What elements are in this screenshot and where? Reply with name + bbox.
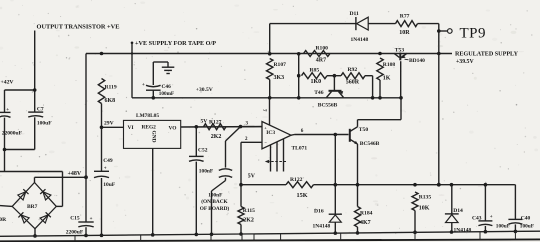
wire back cap lower lead xyxy=(225,178,227,181)
svg-text:10K: 10K xyxy=(419,206,430,212)
resistor R127 xyxy=(204,124,227,130)
svg-text:+: + xyxy=(90,217,93,222)
junction back cap ground xyxy=(210,232,214,236)
diode BR7 lower-left xyxy=(18,212,29,223)
svg-text:C15: C15 xyxy=(70,215,80,221)
wire riser rail to loop xyxy=(298,54,300,98)
wire C40 corner xyxy=(514,184,517,186)
wire +48V column upper xyxy=(85,54,87,222)
wire AC corner down xyxy=(62,172,64,207)
label BD140 with arrow xyxy=(405,58,409,61)
wire R135 bottom xyxy=(414,211,416,233)
svg-text:+: + xyxy=(104,167,107,172)
junction rail-R107 xyxy=(268,52,272,56)
wire R77 to corner xyxy=(418,23,439,25)
bottom continuation line xyxy=(0,239,540,241)
junction rail-output node xyxy=(437,52,441,56)
svg-text:(ON BACK: (ON BACK xyxy=(201,198,228,205)
junction +48V node xyxy=(84,175,88,179)
svg-text:00R: 00R xyxy=(0,217,7,223)
svg-text:BR7: BR7 xyxy=(27,204,38,210)
wire feedback rail xyxy=(314,184,515,186)
svg-text:10R: 10R xyxy=(399,30,410,36)
wire tape box left edge xyxy=(131,44,133,98)
wire TP9 stub xyxy=(439,30,447,32)
svg-text:R127: R127 xyxy=(209,119,222,125)
svg-text:5V: 5V xyxy=(248,173,256,179)
junction C40-ground xyxy=(514,230,518,234)
junction rail-R119 xyxy=(100,52,104,56)
wire VI input xyxy=(102,126,124,128)
resistor R135 xyxy=(412,192,418,211)
wire C52 bottom lead xyxy=(195,162,197,235)
wire R119 bottom xyxy=(101,104,103,128)
junction R115-ground xyxy=(239,232,243,236)
transistor T50 emitter xyxy=(350,139,358,144)
junction C43-ground xyxy=(484,230,488,234)
capacitor C49 xyxy=(94,170,109,172)
junction feedback-R135 xyxy=(413,183,417,187)
wire loop mid xyxy=(327,75,341,77)
svg-text:4K7: 4K7 xyxy=(360,220,371,226)
node bullet tape supply xyxy=(131,42,134,45)
svg-text:R100: R100 xyxy=(316,46,329,52)
junction R184-ground xyxy=(356,231,360,235)
svg-text:1K0: 1K0 xyxy=(311,79,322,85)
wire 22000uF top lead xyxy=(4,90,6,112)
wire sense column xyxy=(438,54,440,185)
wire back cap diagonal top xyxy=(226,127,241,141)
wire bridge top stub xyxy=(34,177,36,182)
svg-text:+VE SUPPLY FOR TAPE O/P: +VE SUPPLY FOR TAPE O/P xyxy=(135,41,216,47)
resistor R107 xyxy=(267,59,273,80)
wire tick below rail x415 xyxy=(414,232,416,240)
junction rail-R85 riser xyxy=(297,52,301,56)
svg-text:R184: R184 xyxy=(360,210,373,216)
junction rail-R108 xyxy=(378,52,382,56)
svg-text:100uF: 100uF xyxy=(37,121,52,127)
svg-text:1N4148: 1N4148 xyxy=(313,224,331,230)
svg-text:29V: 29V xyxy=(104,121,114,127)
capacitor C46 xyxy=(146,85,161,86)
wire 22000uF bottom lead xyxy=(4,118,6,150)
wire 29V column to C49 xyxy=(101,127,103,171)
junction D16-ground xyxy=(334,231,338,235)
svg-text:+48V: +48V xyxy=(68,171,82,177)
junction box-R92 xyxy=(371,96,375,100)
svg-text:R107: R107 xyxy=(274,62,287,68)
svg-text:100mF: 100mF xyxy=(159,91,174,97)
svg-text:C46: C46 xyxy=(162,84,172,90)
svg-text:560R: 560R xyxy=(346,80,360,86)
wire D11 riser xyxy=(269,24,271,54)
junction regulator gnd xyxy=(151,233,155,237)
resistor R115 xyxy=(238,207,244,225)
wire pin2 xyxy=(241,141,262,143)
junction feedback-C43 xyxy=(484,183,488,187)
wire main supply rail xyxy=(86,53,452,55)
junction feedback-R184 xyxy=(356,183,360,187)
wire bridge bottom lead xyxy=(34,229,36,236)
wire output transistor +ve vertical xyxy=(34,31,36,112)
svg-text:R122: R122 xyxy=(290,177,303,183)
wire to bridge right corner xyxy=(56,205,62,207)
svg-text:+: + xyxy=(490,215,493,220)
transistor T46 xyxy=(329,90,342,92)
svg-text:100uF: 100uF xyxy=(520,224,534,230)
svg-text:6: 6 xyxy=(301,128,304,134)
svg-text:+42V: +42V xyxy=(1,80,15,86)
resistor R85 xyxy=(302,73,328,79)
wire R184 leads xyxy=(357,185,359,207)
diode D11 xyxy=(357,17,369,30)
wire C46 top lead xyxy=(152,62,154,85)
wire 5V feedback rail left xyxy=(241,184,286,186)
wire pin6 output xyxy=(291,134,295,137)
junction cap link xyxy=(3,148,7,152)
wire pin7 supply xyxy=(269,98,271,125)
junction +42V / C7 xyxy=(33,88,37,92)
svg-text:TP9: TP9 xyxy=(460,25,487,41)
svg-text:100uF: 100uF xyxy=(496,223,510,229)
wire D11 to R77 xyxy=(368,23,396,25)
svg-text:R115: R115 xyxy=(243,208,255,214)
regulator REG2 box xyxy=(124,120,181,148)
svg-text:10uF: 10uF xyxy=(103,182,116,188)
junction C49-ground xyxy=(100,234,104,238)
wire cap ground link xyxy=(5,149,35,151)
svg-text:C40: C40 xyxy=(521,215,531,221)
capacitor C52 xyxy=(189,155,204,157)
wire C43 top lead xyxy=(484,185,486,221)
wire tape box bottom xyxy=(132,97,401,99)
svg-text:R92: R92 xyxy=(348,67,358,73)
capacitor 100nF on back xyxy=(219,169,232,171)
diode BR7 upper-left xyxy=(18,189,29,200)
svg-text:D11: D11 xyxy=(350,11,360,17)
wire D16 column xyxy=(334,135,336,215)
transistor T46 base lead xyxy=(333,76,335,90)
wire C43 bottom lead xyxy=(484,226,486,232)
wire R92 right corner xyxy=(365,75,373,77)
junction feedback-D16 xyxy=(334,183,338,187)
svg-text:OF BOARD): OF BOARD) xyxy=(200,205,230,212)
wire tick below rail x480 xyxy=(479,232,481,240)
wire C52 top lead xyxy=(195,127,197,156)
capacitor 22000uF xyxy=(0,111,11,113)
junction box-C46 xyxy=(152,96,156,100)
wire AC input left xyxy=(0,171,63,173)
junction box-R108 xyxy=(378,96,382,100)
svg-text:15K: 15K xyxy=(297,192,308,199)
svg-text:BC546B: BC546B xyxy=(360,141,380,147)
svg-text:C52: C52 xyxy=(198,148,208,154)
op-amp offset pin stub 1 xyxy=(270,145,272,172)
capacitor C15 xyxy=(78,221,93,223)
junction box-riser xyxy=(297,96,301,100)
svg-text:IC3: IC3 xyxy=(266,130,275,136)
svg-text:3K3: 3K3 xyxy=(274,75,285,81)
wire C7 bottom lead xyxy=(34,117,36,149)
svg-text:R85: R85 xyxy=(310,68,320,74)
junction feedback-D14 xyxy=(450,183,454,187)
diode D14 xyxy=(445,213,459,215)
wire tick below rail x340.7 xyxy=(340,233,342,240)
svg-text:C7: C7 xyxy=(37,107,44,113)
capacitor C7 xyxy=(28,111,43,113)
svg-text:1K: 1K xyxy=(383,75,391,81)
wire T50 emitter down xyxy=(357,144,359,185)
svg-text:VI: VI xyxy=(128,125,134,131)
junction rail-box edge xyxy=(131,52,133,54)
svg-text:BC556B: BC556B xyxy=(318,102,338,108)
wire R108 bottom xyxy=(379,80,381,98)
transistor T50 collector xyxy=(350,127,358,132)
wire output node column top xyxy=(438,24,440,54)
wire C46 bottom lead xyxy=(152,90,154,97)
wire tick below rail x211 xyxy=(210,234,212,240)
svg-text:T53: T53 xyxy=(395,47,405,53)
resistor R119 xyxy=(98,79,104,104)
junction pin3 node xyxy=(239,125,243,129)
test point TP9 terminal xyxy=(448,29,453,34)
diode D16 xyxy=(329,213,342,215)
svg-text:2K2: 2K2 xyxy=(243,218,254,224)
svg-text:T50: T50 xyxy=(359,127,369,133)
wire D16 bottom xyxy=(334,222,336,233)
svg-text:100nF: 100nF xyxy=(199,168,214,174)
resistor R100 xyxy=(304,51,331,57)
junction loop left xyxy=(297,74,301,78)
bridge rectifier BR7 outline xyxy=(12,183,56,229)
ground rail xyxy=(0,231,540,236)
junction 5V node xyxy=(239,183,243,187)
diode BR7 upper-right xyxy=(40,189,51,200)
op-amp offset pin stub 5 xyxy=(276,142,278,172)
junction C52-ground xyxy=(195,233,199,237)
junction output-feedback xyxy=(334,133,338,137)
wire C40 bottom lead xyxy=(514,224,516,231)
svg-text:LM78L05: LM78L05 xyxy=(136,113,159,119)
svg-text:+: + xyxy=(6,108,9,113)
svg-text:R77: R77 xyxy=(400,13,410,19)
wire tick below rail x140.7 xyxy=(140,235,142,241)
wire C49 bottom lead xyxy=(101,178,103,235)
junction C15-ground xyxy=(84,234,88,238)
capacitor C43 xyxy=(478,220,492,222)
wire C15 bottom lead xyxy=(85,227,87,235)
svg-text:5V: 5V xyxy=(201,118,208,124)
junction TP9 stub xyxy=(437,29,441,33)
wire R115 leads xyxy=(240,185,242,207)
wire D14 bottom xyxy=(451,223,453,232)
wire D11 line xyxy=(270,23,356,25)
svg-text:2K2: 2K2 xyxy=(211,134,222,140)
svg-text:6K8: 6K8 xyxy=(105,98,116,104)
svg-text:100nF: 100nF xyxy=(208,193,222,199)
scan noise speckles xyxy=(174,35,175,36)
resistor R77 xyxy=(396,21,418,27)
svg-text:+: + xyxy=(142,83,145,88)
wire bridge left lead xyxy=(0,205,12,208)
junction bridge-ground xyxy=(33,234,37,238)
op-amp IC3 triangle xyxy=(262,122,291,149)
svg-text:1N4148: 1N4148 xyxy=(351,37,369,43)
svg-text:+30.5V: +30.5V xyxy=(196,87,213,93)
junction 29V node xyxy=(100,126,104,130)
wire tick below rail x280.6 xyxy=(280,234,282,241)
wire +48V horizontal xyxy=(35,176,87,178)
junction feedback-sense xyxy=(437,183,441,187)
op-amp offset trim arrow xyxy=(267,161,286,163)
svg-text:VO: VO xyxy=(169,125,177,131)
svg-text:GND: GND xyxy=(151,131,157,143)
wire pin2 down to 5V node xyxy=(240,142,242,184)
wire back cap upper lead xyxy=(225,141,227,168)
wire tick below rail x515.4 xyxy=(514,231,516,239)
transistor T50 base bar xyxy=(349,129,351,142)
wire R107 bottom xyxy=(269,80,271,98)
ground symbol tape supply xyxy=(167,62,169,67)
svg-text:4R7: 4R7 xyxy=(316,57,326,63)
wire tick below rail x254 xyxy=(253,234,255,241)
wire +42V horizontal xyxy=(5,89,35,91)
resistor R184 xyxy=(355,207,361,228)
junction box-T53 collector xyxy=(399,96,403,100)
svg-text:REGULATED SUPPLY: REGULATED SUPPLY xyxy=(455,51,519,57)
wire tick below rail x242 xyxy=(241,234,243,241)
capacitor C40 xyxy=(508,218,522,220)
wire D14 top lead xyxy=(451,185,453,214)
svg-text:C43: C43 xyxy=(472,215,482,221)
svg-text:R135: R135 xyxy=(419,195,432,201)
diode BR7 lower-right xyxy=(40,212,51,223)
svg-text:BD140: BD140 xyxy=(409,58,425,64)
wire link down xyxy=(4,150,6,172)
svg-text:+39.5V: +39.5V xyxy=(456,59,474,65)
wire tick below rail x75 xyxy=(74,236,76,242)
junction box-R107 xyxy=(268,96,272,100)
wire pin3 xyxy=(241,126,263,128)
junction VO-C52 xyxy=(195,125,199,129)
resistor R108 xyxy=(377,58,383,80)
svg-text:D14: D14 xyxy=(453,208,463,214)
resistor R92 xyxy=(341,73,365,79)
op-amp offset pin stub 8 xyxy=(283,139,285,172)
junction R135-ground xyxy=(413,231,417,235)
svg-text:TL071: TL071 xyxy=(292,145,308,151)
wire VO output xyxy=(181,126,262,128)
svg-text:R119: R119 xyxy=(105,85,117,91)
resistor R122 xyxy=(286,182,314,188)
wire T53 collector xyxy=(400,61,402,98)
junction D14-ground xyxy=(450,230,454,234)
svg-text:2200uF: 2200uF xyxy=(66,230,84,236)
junction loop mid T46 base xyxy=(333,74,337,78)
wire GND pin xyxy=(152,148,154,234)
svg-text:C49: C49 xyxy=(103,158,113,164)
svg-text:T46: T46 xyxy=(314,90,324,96)
transistor T53 xyxy=(399,53,401,61)
